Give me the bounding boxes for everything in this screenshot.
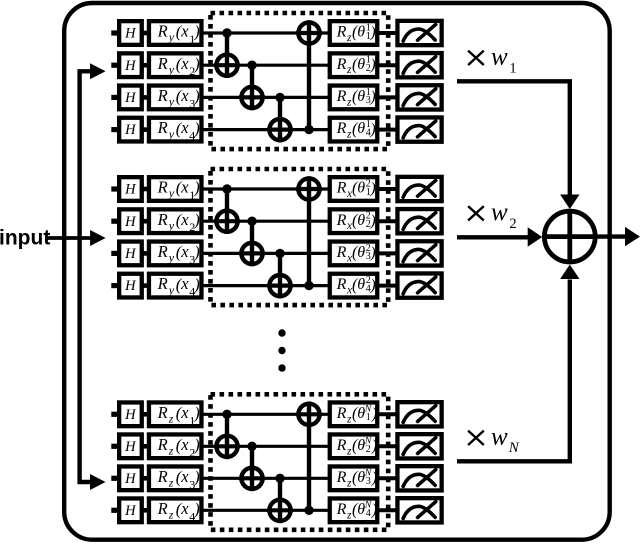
svg-text:1: 1 <box>509 61 516 77</box>
svg-text:2: 2 <box>366 444 371 455</box>
svg-text:x: x <box>180 435 189 454</box>
svg-text:y: y <box>168 251 175 265</box>
input branch wire <box>80 71 91 482</box>
svg-text:x: x <box>180 403 189 422</box>
block2 measurement meter q4 <box>397 273 441 297</box>
svg-text:): ) <box>193 468 200 487</box>
block3 Rz(x1) encoding gate q1 <box>149 402 202 427</box>
svg-text:z: z <box>168 444 174 458</box>
block1 CNOT3 control q3 <box>275 93 284 143</box>
block2 Rx(theta4^2) ansatz gate q4 <box>330 274 378 298</box>
output wire <box>594 234 626 238</box>
svg-text:w: w <box>491 199 508 226</box>
svg-text:H: H <box>124 503 137 519</box>
block3 qubit4 wire <box>111 508 396 513</box>
svg-text:R: R <box>157 435 168 454</box>
svg-text:): ) <box>371 438 377 455</box>
block3 H gate q4 <box>119 498 142 522</box>
svg-text:x: x <box>180 499 189 518</box>
svg-text:x: x <box>180 467 189 486</box>
block2 CNOT1 control q1 <box>222 184 231 234</box>
block2 CNOT4 control q4 <box>304 176 313 290</box>
input wire <box>46 236 91 240</box>
svg-text:H: H <box>124 122 137 138</box>
block1 Rz(theta3^1) ansatz gate q3 <box>330 86 378 110</box>
block1 measurement meter q3 <box>397 85 441 109</box>
block2 CNOT1 target q2 <box>214 211 240 232</box>
svg-text:x: x <box>180 86 189 105</box>
svg-text:z: z <box>168 508 174 522</box>
svg-text:): ) <box>193 404 200 423</box>
svg-text:R: R <box>157 242 168 261</box>
block1 CNOT1 target q2 <box>214 55 240 76</box>
svg-text:): ) <box>193 22 200 41</box>
block2 H gate q2 <box>119 209 142 233</box>
block3 qubit3 wire <box>111 476 396 481</box>
svg-text:R: R <box>157 86 168 105</box>
block1 qubit4 wire <box>111 127 396 132</box>
block1 measurement meter q2 <box>397 53 441 77</box>
block2 Ry(x1) encoding gate q1 <box>149 177 202 202</box>
block2 H gate q3 <box>119 242 142 266</box>
svg-text:θ: θ <box>357 180 365 197</box>
input arrowhead into block 2 <box>90 230 106 246</box>
svg-text:x: x <box>180 22 189 41</box>
svg-text:H: H <box>124 58 137 74</box>
svg-text:): ) <box>193 210 200 229</box>
block2 H gate q1 <box>119 177 142 201</box>
block1 Ry(x4) encoding gate q4 <box>149 118 202 143</box>
svg-text:): ) <box>193 87 200 106</box>
block2 H gate q4 <box>119 274 142 298</box>
block3 Rz(theta4^N) ansatz gate q4 <box>330 498 378 522</box>
block1 H gate q2 <box>119 53 142 77</box>
wN arrowhead into adder bottom <box>560 265 579 280</box>
svg-text:input: input <box>0 226 50 249</box>
svg-text:θ: θ <box>357 24 365 41</box>
block1 measurement meter q4 <box>397 117 441 141</box>
svg-text:R: R <box>336 24 347 41</box>
block3 qubit1 wire <box>111 412 396 417</box>
block2 CNOT3 control q3 <box>275 249 284 299</box>
block1 Ry(x3) encoding gate q3 <box>149 86 202 111</box>
svg-text:R: R <box>336 469 347 486</box>
svg-text:y: y <box>168 95 175 109</box>
block3 H gate q3 <box>119 466 142 490</box>
svg-text:): ) <box>193 178 200 197</box>
svg-text:H: H <box>124 90 137 106</box>
block3 CNOT4 control q4 <box>304 402 313 516</box>
block3 Rz(theta3^N) ansatz gate q3 <box>330 466 378 490</box>
block1 CNOT2 target q3 <box>239 87 265 108</box>
svg-text:): ) <box>369 245 375 262</box>
svg-text:R: R <box>336 276 347 293</box>
svg-text:x: x <box>180 274 189 293</box>
block1 Ry(x1) encoding gate q1 <box>149 21 202 46</box>
svg-text:w: w <box>491 423 508 450</box>
block3 measurement meter q4 <box>397 498 441 522</box>
ellipsis dots <box>278 329 285 371</box>
svg-text:): ) <box>371 470 377 487</box>
weight label x w1 <box>468 43 517 76</box>
w1 arrowhead into adder top <box>560 195 579 210</box>
block3 Rz(theta2^N) ansatz gate q2 <box>330 434 378 458</box>
block3 entangler dotted box <box>211 394 389 530</box>
svg-text:y: y <box>168 30 175 44</box>
svg-text:R: R <box>336 88 347 105</box>
block1 H gate q1 <box>119 21 142 45</box>
svg-text:R: R <box>336 212 347 229</box>
block2 qubit3 wire <box>111 251 396 256</box>
output arrowhead <box>625 227 640 246</box>
svg-text:x: x <box>180 54 189 73</box>
svg-text:): ) <box>193 436 200 455</box>
svg-text:): ) <box>369 121 375 138</box>
block2 measurement meter q1 <box>397 177 441 201</box>
weight wire w1 <box>457 81 570 194</box>
svg-text:w: w <box>491 43 508 70</box>
svg-text:θ: θ <box>357 244 365 261</box>
svg-text:R: R <box>157 118 168 137</box>
svg-text:): ) <box>369 89 375 106</box>
block1 Rz(theta4^1) ansatz gate q4 <box>330 118 378 142</box>
svg-text:N: N <box>508 440 520 456</box>
svg-text:): ) <box>371 406 377 423</box>
svg-text:y: y <box>168 283 175 297</box>
svg-text:R: R <box>157 178 168 197</box>
block1 H gate q3 <box>119 86 142 110</box>
svg-text:): ) <box>369 24 375 41</box>
svg-text:R: R <box>157 403 168 422</box>
svg-text:θ: θ <box>357 88 365 105</box>
block1 entangler dotted box <box>211 13 389 149</box>
block1 H gate q4 <box>119 118 142 142</box>
block3 measurement meter q2 <box>397 434 441 458</box>
svg-text:H: H <box>124 407 137 423</box>
weight label x wN <box>468 423 520 456</box>
block2 Ry(x4) encoding gate q4 <box>149 274 202 299</box>
block3 qubit2 wire <box>111 444 396 449</box>
svg-text:R: R <box>157 467 168 486</box>
block2 qubit1 wire <box>111 186 396 191</box>
svg-text:H: H <box>124 471 137 487</box>
svg-text:z: z <box>168 476 174 490</box>
svg-text:): ) <box>193 275 200 294</box>
block2 CNOT2 target q3 <box>239 243 265 264</box>
block3 Rz(x4) encoding gate q4 <box>149 498 202 523</box>
weight wire wN <box>457 280 570 462</box>
block3 measurement meter q3 <box>397 466 441 490</box>
svg-text:): ) <box>369 212 375 229</box>
svg-text:3: 3 <box>366 476 371 487</box>
block3 CNOT3 target q4 <box>267 500 293 521</box>
svg-text:y: y <box>168 218 175 232</box>
block1 CNOT1 control q1 <box>222 28 231 78</box>
svg-text:y: y <box>168 127 175 141</box>
svg-text:x: x <box>180 118 189 137</box>
block1 measurement meter q1 <box>397 21 441 45</box>
block3 CNOT2 target q3 <box>239 468 265 489</box>
svg-text:): ) <box>193 54 200 73</box>
block3 CNOT4 target q1 <box>296 404 322 425</box>
svg-text:R: R <box>157 274 168 293</box>
svg-text:R: R <box>336 437 347 454</box>
block3 H gate q2 <box>119 434 142 458</box>
svg-text:R: R <box>336 180 347 197</box>
block2 Rx(theta2^2) ansatz gate q2 <box>330 209 378 233</box>
block2 Ry(x3) encoding gate q3 <box>149 242 202 267</box>
svg-text:2: 2 <box>509 216 516 232</box>
svg-text:y: y <box>168 186 175 200</box>
svg-text:): ) <box>371 502 377 519</box>
svg-text:): ) <box>369 180 375 197</box>
svg-text:R: R <box>157 22 168 41</box>
svg-text:x: x <box>180 178 189 197</box>
svg-text:y: y <box>168 62 175 76</box>
adder (weighted sum) circle-plus <box>544 211 595 262</box>
svg-text:R: R <box>157 210 168 229</box>
svg-text:θ: θ <box>357 120 365 137</box>
block3 H gate q1 <box>119 402 142 426</box>
svg-text:z: z <box>168 412 174 426</box>
block3 Rz(x2) encoding gate q2 <box>149 434 202 459</box>
svg-text:H: H <box>124 439 137 455</box>
block2 qubit2 wire <box>111 219 396 224</box>
weight label x w2 <box>468 199 517 232</box>
svg-text:): ) <box>193 119 200 138</box>
block1 CNOT2 control q2 <box>247 60 256 110</box>
svg-text:R: R <box>336 405 347 422</box>
block3 CNOT1 control q1 <box>222 410 231 460</box>
block2 measurement meter q2 <box>397 209 441 233</box>
block2 CNOT3 target q4 <box>267 275 293 296</box>
block2 measurement meter q3 <box>397 241 441 265</box>
block1 Rz(theta1^1) ansatz gate q1 <box>330 21 378 45</box>
svg-text:): ) <box>193 243 200 262</box>
branch arrowhead into block 3 <box>90 474 106 490</box>
block3 measurement meter q1 <box>397 402 441 426</box>
svg-text:R: R <box>336 244 347 261</box>
block3 CNOT1 target q2 <box>214 436 240 457</box>
block1 CNOT4 control q4 <box>304 20 313 134</box>
svg-text:H: H <box>124 214 137 230</box>
svg-text:R: R <box>157 499 168 518</box>
block2 Rx(theta3^2) ansatz gate q3 <box>330 242 378 266</box>
svg-text:H: H <box>124 246 137 262</box>
block2 Ry(x2) encoding gate q2 <box>149 209 202 234</box>
block1 qubit2 wire <box>111 63 396 68</box>
block2 CNOT2 control q2 <box>247 217 256 267</box>
svg-text:H: H <box>124 26 137 42</box>
block2 Rx(theta1^2) ansatz gate q1 <box>330 177 378 201</box>
block1 qubit1 wire <box>111 30 396 35</box>
svg-text:): ) <box>193 500 200 519</box>
block1 qubit3 wire <box>111 95 396 100</box>
svg-text:x: x <box>180 242 189 261</box>
svg-text:H: H <box>124 182 137 198</box>
svg-text:1: 1 <box>366 412 371 423</box>
svg-text:4: 4 <box>366 508 371 519</box>
svg-text:R: R <box>157 54 168 73</box>
weight wire w2 <box>457 235 528 239</box>
block1 CNOT3 target q4 <box>267 119 293 140</box>
block3 Rz(theta1^N) ansatz gate q1 <box>330 402 378 426</box>
svg-text:R: R <box>336 56 347 73</box>
block1 Rz(theta2^1) ansatz gate q2 <box>330 53 378 77</box>
svg-text:H: H <box>124 278 137 294</box>
block3 CNOT2 control q2 <box>247 442 256 492</box>
block2 entangler dotted box <box>211 169 389 305</box>
svg-text:x: x <box>180 210 189 229</box>
branch arrowhead into block 1 <box>90 63 106 79</box>
block1 Ry(x2) encoding gate q2 <box>149 53 202 78</box>
svg-text:): ) <box>369 277 375 294</box>
block3 Rz(x3) encoding gate q3 <box>149 466 202 491</box>
block2 qubit4 wire <box>111 283 396 288</box>
svg-text:θ: θ <box>357 212 365 229</box>
svg-text:): ) <box>369 56 375 73</box>
svg-text:θ: θ <box>357 56 365 73</box>
w2 arrowhead into adder left <box>528 227 543 246</box>
svg-text:θ: θ <box>357 276 365 293</box>
svg-text:R: R <box>336 501 347 518</box>
block3 CNOT3 control q3 <box>275 474 284 524</box>
block2 CNOT4 target q1 <box>296 178 322 199</box>
svg-text:R: R <box>336 120 347 137</box>
block1 CNOT4 target q1 <box>296 22 322 43</box>
